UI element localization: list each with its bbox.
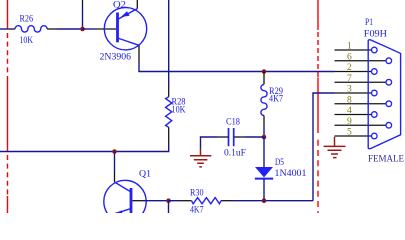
svg-text:1: 1 [347,42,352,52]
connector P1 pin line 8 [335,103,387,105]
capacitor C18 pin left [217,136,229,138]
wire top vertical to node [82,7,84,29]
transistor Q2 emitter pin up [136,0,138,9]
connector P1 pin line 6 [335,60,387,62]
transistor Q1 collector diagonal [115,182,132,192]
transistor Q1 base bar [130,188,133,213]
ground at connector bars [324,146,346,157]
connector hole pin8 [386,101,392,107]
connector hole pin1 [372,47,378,53]
wire top vertical to node pin [82,0,84,7]
transistor Q2 collector diagonal [118,38,140,45]
sheet border red line left solid middle [7,81,9,151]
svg-text:7: 7 [347,74,352,84]
sheet border red line right solid middle [317,78,319,134]
svg-text:5: 5 [347,128,352,138]
wire C18 right to node [245,136,264,138]
diode D5 anode wire [263,137,265,167]
svg-text:1N4001: 1N4001 [275,169,307,179]
svg-text:Q1: Q1 [139,170,151,180]
diode D5 triangle [255,167,273,177]
svg-text:2N3906: 2N3906 [100,53,132,63]
resistor R26 pin left [8,28,15,30]
transistor Q1 emitter diagonal [115,209,131,214]
resistor R29 pin top [263,72,265,85]
wire Q2 collector corner to connector pin2 [139,62,335,72]
diode D5 cathode bar [255,178,273,180]
resistor R28 pin top [168,88,170,97]
ground at connector stem [334,137,336,147]
connector hole pin5 [372,133,378,139]
ground at C18 stem [200,149,202,156]
svg-text:8: 8 [347,95,352,105]
transistor Q2 circle [104,8,146,50]
resistor R29 pin bottom [263,116,265,127]
resistor R30 pin right [221,200,233,202]
wire left to R26 [0,28,8,30]
connector hole pin6 [386,58,392,64]
svg-text:Q2: Q2 [113,1,126,11]
transistor Q2 base bar [116,13,119,43]
connector P1 pin line 3 [335,92,372,94]
wire node to Q2 base [83,28,97,30]
svg-text:4: 4 [347,106,352,116]
junction node at Q1 collector branch [112,149,117,154]
svg-text:R26: R26 [20,15,34,25]
svg-text:P1: P1 [365,18,373,28]
connector hole pin7 [386,79,392,85]
resistor R30 body [192,198,222,204]
sheet border red line left dashed lower [7,155,9,196]
transistor Q2 emitter arrow (PNP into base) [121,11,130,17]
resistor R29 body [261,85,267,116]
capacitor C18 pin right [234,136,245,138]
svg-text:4K7: 4K7 [190,206,204,214]
svg-text:0.1uF: 0.1uF [224,149,246,159]
sheet border red line left solid top [7,0,9,29]
transistor Q1 collector pin [114,172,116,182]
svg-text:D5: D5 [275,158,284,168]
transistor Q1 circle [104,180,146,222]
svg-text:2: 2 [347,63,352,73]
wire Q1 base to node [142,200,169,202]
transistor Q1 emitter arrow (NPN outward) [116,210,122,213]
connector P1 pin line 1 [335,49,372,51]
svg-text:9: 9 [347,117,352,127]
connector P1 pin line 7 [335,81,387,83]
junction node at C18/D5 [262,135,267,140]
transistor Q1 base pin right [132,200,142,202]
wire R29 to C18 node [263,126,265,137]
svg-text:F09H: F09H [364,30,388,40]
svg-text:FEMALE: FEMALE [368,155,404,165]
connector P1 pin line 4 [335,114,372,116]
wire node down off sheet [168,201,170,213]
connector hole pin2 [372,69,378,75]
sheet border red line right solid top [317,0,319,30]
wire node down to Q1 collector [114,152,116,173]
wire R26 to node [57,28,83,30]
sheet border red line right dashed lower [317,140,319,213]
resistor R26 pin right [47,28,57,30]
wire riser to pin3 [313,93,335,201]
sheet border red line left solid bottom [7,196,9,213]
svg-text:3: 3 [347,85,352,95]
sheet border red line left dashed upper [7,33,9,81]
svg-text:10K: 10K [172,106,186,116]
resistor R28 pin bottom [168,127,170,143]
transistor Q2 collector pin down [138,45,140,62]
svg-text:R30: R30 [190,189,204,199]
svg-text:C18: C18 [226,118,240,128]
connector hole pin9 [386,122,392,128]
svg-text:10K: 10K [20,36,34,46]
wire C18 left to ground [201,137,218,149]
connector hole pin3 [372,90,378,96]
connector hole pin4 [372,112,378,118]
junction node at R29 top [262,69,267,74]
wire R30 to pin3 riser [233,200,313,202]
wire R28 bottom to left edge [0,143,169,152]
junction node at R26/base [80,27,85,32]
connector P1 pin line 9 [335,124,387,126]
connector P1 pin line 2 [335,71,372,73]
svg-text:4K7: 4K7 [269,95,283,105]
connector P1 pin line 5 [335,135,372,137]
transistor Q2 base pin [96,28,116,30]
resistor R28 body [166,97,172,128]
diode D5 cathode wire [263,179,265,201]
sheet border red line right dashed upper [317,32,319,77]
connector P1 body shell [368,40,400,149]
junction node at bottom net [166,198,171,203]
transistor Q2 emitter diagonal [118,9,138,20]
junction node under D5 [262,198,267,203]
wire node to R30 [169,200,180,202]
ground at C18 bars [190,156,211,167]
wire top vertical down to R28 [168,0,170,88]
resistor R26 body [15,26,47,32]
resistor R30 pin left [180,200,192,202]
capacitor C18 plates [229,128,234,146]
svg-text:6: 6 [347,52,352,62]
